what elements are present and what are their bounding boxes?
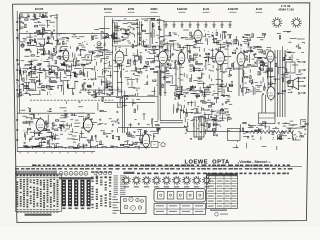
wire: [219, 126, 221, 127]
wire: [26, 74, 28, 80]
wire: [93, 45, 95, 46]
wire: [95, 90, 97, 94]
wire: [199, 87, 201, 90]
wire: [158, 37, 160, 39]
tube V7 EM84: [237, 51, 245, 68]
wire: [140, 142, 148, 144]
capacitor: [25, 49, 26, 51]
resistor: [40, 138, 43, 139]
wire: [151, 119, 153, 124]
capacitor: [39, 69, 41, 70]
capacitor: [30, 68, 32, 69]
wire: [265, 71, 267, 74]
wire: [190, 120, 193, 122]
capacitor: [44, 70, 46, 71]
value label: [281, 76, 283, 79]
wire: [244, 34, 250, 36]
resistor: [34, 26, 37, 27]
IF transformer box T2: [150, 21, 164, 47]
value label: [298, 130, 300, 133]
junction: [91, 32, 94, 35]
value label: [228, 75, 230, 78]
label Roehren: [124, 172, 135, 174]
wire: [58, 127, 61, 129]
wire: [254, 87, 256, 94]
resistor: [217, 41, 218, 44]
wire: [80, 136, 87, 138]
capacitor: [94, 91, 95, 93]
resistor: [132, 44, 133, 47]
wire: [132, 141, 134, 144]
resistor: [276, 63, 277, 66]
resistor: [162, 71, 165, 72]
wire: [201, 72, 203, 78]
resistor: [67, 85, 68, 88]
wire: [143, 40, 145, 45]
trimmer capacitor C9: [229, 22, 232, 28]
wire: [88, 89, 90, 95]
value label: [196, 93, 199, 96]
wire: [183, 105, 185, 108]
wire: [215, 98, 217, 103]
capacitor: [179, 45, 180, 47]
capacitor: [242, 37, 244, 38]
antenna terminal 4: [39, 15, 42, 17]
wire: [177, 68, 179, 71]
title Vinetta-Stereo: [238, 160, 268, 164]
wire: [61, 114, 68, 116]
wire: [218, 120, 222, 122]
wire: [37, 72, 43, 74]
wire: [64, 65, 72, 67]
wire: [110, 145, 114, 147]
wire: [201, 90, 203, 96]
value label: [34, 17, 36, 20]
bus wire: [17, 112, 95, 114]
value label: [18, 17, 21, 20]
junction: [48, 91, 51, 94]
wire: [47, 37, 49, 44]
resistor: [88, 114, 89, 117]
value label: [147, 51, 150, 54]
wire: [94, 56, 101, 58]
capacitor: [169, 56, 171, 57]
wire: [155, 121, 159, 123]
wire: [211, 109, 213, 115]
wire: [163, 44, 166, 46]
wire: [72, 128, 74, 133]
terminal 5: [298, 92, 305, 94]
tick 6: [59, 152, 61, 154]
value label: [225, 68, 227, 71]
value label: [106, 33, 109, 36]
resistor: [57, 57, 60, 58]
wire: [74, 61, 76, 67]
junction: [300, 135, 303, 138]
wire: [243, 70, 245, 77]
wire: [273, 78, 280, 80]
wire: [75, 81, 79, 83]
wire: [100, 59, 102, 62]
wire: [35, 84, 37, 91]
capacitor: [40, 32, 41, 34]
wire: [19, 13, 21, 30]
resistor: [198, 138, 201, 139]
value label: [91, 123, 95, 126]
wire: [162, 59, 169, 61]
wire: [209, 84, 215, 86]
value label: [82, 46, 86, 49]
wire: [280, 136, 282, 140]
wire: [137, 129, 142, 131]
capacitor: [84, 83, 86, 84]
resistor: [106, 85, 107, 88]
junction: [103, 44, 106, 47]
resistor: [55, 129, 58, 130]
wire: [101, 92, 106, 94]
wire: [97, 121, 99, 123]
wire: [25, 82, 27, 89]
wire: [58, 33, 65, 35]
value label: [297, 60, 300, 63]
wire: [218, 91, 221, 93]
wire: [213, 42, 220, 44]
filter box: [259, 113, 276, 124]
capacitor: [199, 36, 201, 37]
resistor: [40, 45, 43, 46]
wire: [109, 71, 111, 78]
wire: [156, 48, 159, 50]
wire: [285, 72, 290, 74]
capacitor: [261, 65, 263, 66]
capacitor: [289, 83, 291, 84]
wire: [284, 93, 286, 96]
wire: [212, 121, 214, 127]
wire: [119, 98, 121, 106]
wire: [257, 46, 262, 48]
value label: [250, 90, 252, 93]
table footer note: [25, 214, 52, 216]
junction: [107, 61, 110, 64]
wire: [221, 115, 223, 120]
capacitor: [222, 80, 223, 82]
resistor: [31, 55, 34, 56]
capacitor: [240, 45, 242, 46]
junction: [215, 29, 218, 32]
label 2 TL NL: [281, 4, 291, 8]
wire: [182, 46, 184, 49]
capacitor: [43, 141, 44, 143]
junction: [83, 40, 86, 43]
wire: [154, 133, 158, 135]
junction: [246, 33, 249, 36]
wire: [117, 82, 123, 84]
value label: [207, 99, 210, 102]
junction: [90, 39, 93, 42]
resistor: [260, 61, 263, 62]
wire: [57, 85, 63, 87]
wire: [151, 130, 158, 132]
value label: [190, 36, 194, 39]
wire: [262, 77, 264, 82]
label EABC80: [177, 7, 188, 11]
wire: [39, 90, 41, 94]
resistor: [169, 32, 170, 35]
wire: [266, 71, 268, 79]
wire: [41, 70, 49, 72]
capacitor: [220, 85, 222, 86]
wire: [211, 117, 216, 119]
wire: [209, 124, 211, 127]
wire: [153, 29, 155, 38]
wire: [256, 84, 263, 86]
wire: [99, 94, 101, 95]
wire: [143, 113, 146, 115]
wire: [112, 33, 114, 40]
wire: [202, 68, 204, 70]
wire: [115, 29, 119, 31]
wire: [100, 130, 105, 132]
wire: [170, 85, 177, 87]
capacitor: [82, 127, 83, 129]
junction: [296, 135, 299, 138]
resistor: [232, 52, 235, 53]
pinout label 9: [204, 186, 209, 187]
wire: [98, 76, 106, 78]
value label: [213, 61, 216, 64]
wire: [134, 59, 136, 66]
capacitor: [107, 136, 108, 138]
value label: [120, 97, 122, 100]
wire: [103, 70, 108, 72]
resistor: [49, 71, 50, 74]
wire: [256, 89, 260, 91]
wire: [61, 85, 63, 92]
wire: [83, 118, 85, 121]
wire: [250, 125, 257, 127]
value label: [227, 95, 230, 98]
wire: [32, 93, 40, 95]
capacitor: [63, 56, 64, 58]
wire: [272, 56, 276, 58]
resistor: [49, 136, 52, 137]
resistor: [103, 37, 106, 38]
resistor: [279, 36, 280, 39]
resistor: [201, 124, 204, 125]
value label: [145, 69, 148, 72]
wire: [260, 69, 262, 75]
wire: [283, 73, 285, 79]
switch header band: [59, 177, 92, 179]
value label: [83, 64, 85, 67]
wire: [127, 34, 129, 37]
wire: [76, 58, 78, 65]
capacitor: [223, 95, 224, 97]
value label: [156, 34, 159, 37]
junction: [81, 41, 84, 44]
rectifier B1: [207, 120, 216, 131]
junction: [97, 52, 100, 55]
wire: [193, 80, 197, 82]
tube V9 EL84b: [267, 85, 275, 102]
wire: [49, 82, 57, 84]
junction: [145, 38, 148, 41]
wire: [262, 69, 264, 71]
value label: [157, 60, 160, 63]
tick 9: [83, 152, 85, 154]
value label: [190, 57, 194, 60]
resistor: [201, 101, 204, 102]
wire: [166, 42, 168, 49]
value label: [36, 55, 39, 58]
wire: [214, 37, 218, 39]
wire: [66, 101, 68, 104]
wire: [144, 131, 148, 133]
wire: [93, 93, 96, 95]
wire: [187, 103, 189, 106]
wire: [124, 96, 126, 133]
resistor: [24, 86, 27, 87]
coil table headers: [91, 171, 112, 178]
value label: [190, 70, 192, 73]
value label: [136, 26, 139, 29]
wire: [203, 94, 210, 96]
wire: [124, 97, 126, 105]
wire: [233, 41, 237, 43]
resistor: [144, 67, 147, 68]
resistor: [195, 40, 196, 43]
value label: [226, 114, 229, 117]
wire: [289, 124, 295, 126]
resistor row R5: [69, 146, 73, 148]
junction: [110, 81, 113, 84]
capacitor: [63, 53, 64, 55]
resistor: [165, 50, 168, 51]
wire: [78, 43, 81, 45]
wire: [51, 33, 54, 35]
wire: [62, 88, 64, 95]
capacitor: [107, 93, 108, 95]
capacitor: [47, 42, 48, 44]
capacitor: [202, 109, 204, 110]
wire: [64, 70, 66, 74]
capacitor: [236, 48, 237, 50]
resistor: [48, 51, 49, 54]
value label: [203, 95, 206, 98]
wire: [135, 68, 140, 70]
value label: [32, 135, 34, 138]
wire: [125, 48, 127, 56]
resistor: [234, 40, 237, 41]
wire: [193, 37, 201, 39]
trimmer capacitor C7: [213, 22, 216, 28]
value label: [33, 19, 35, 22]
junction: [304, 121, 307, 124]
value label: [53, 21, 55, 24]
wire: [252, 79, 254, 83]
wire: [41, 30, 43, 37]
value label: [208, 35, 211, 38]
wire: [94, 28, 99, 30]
wire: [29, 33, 31, 39]
capacitor: [136, 23, 138, 24]
resistor: [82, 65, 85, 66]
wire: [183, 125, 185, 127]
wire: [113, 59, 120, 61]
wire: [122, 52, 124, 57]
wire: [77, 59, 80, 61]
resistor: [258, 72, 259, 75]
wire: [195, 94, 199, 96]
capacitor: [289, 57, 290, 59]
wire: [81, 84, 83, 87]
junction: [139, 68, 142, 71]
wire: [50, 93, 52, 96]
tube V8 EL84: [267, 49, 274, 64]
wire: [164, 64, 166, 96]
wire: [152, 25, 155, 27]
wire: [282, 123, 290, 125]
wire: [123, 105, 127, 107]
wire: [277, 33, 281, 35]
value label: [131, 134, 134, 137]
wire: [78, 116, 84, 118]
wire: [281, 46, 283, 50]
wire: [239, 59, 243, 61]
value label: [83, 49, 86, 52]
tube V2 ECH81: [115, 49, 124, 66]
resistor: [42, 86, 45, 87]
resistor: [151, 18, 154, 19]
tube V10 ECC83: [36, 117, 45, 133]
wire: [233, 68, 235, 70]
resistor: [157, 128, 158, 131]
junction: [129, 59, 132, 62]
wire: [212, 119, 218, 121]
value label: [47, 24, 50, 27]
value label: [116, 37, 118, 40]
value label: [37, 21, 41, 24]
junction: [224, 84, 227, 87]
wire: [160, 120, 183, 122]
wire: [247, 43, 249, 49]
wire: [43, 39, 45, 44]
resistor: [193, 68, 194, 71]
resistor: [112, 135, 113, 138]
capacitor: [100, 119, 101, 121]
value label: [49, 21, 53, 24]
value label: [288, 41, 291, 44]
resistor: [42, 138, 45, 139]
wire: [133, 87, 140, 89]
resistor: [154, 50, 155, 53]
value label: [211, 34, 214, 37]
wire: [292, 138, 294, 140]
wire: [301, 119, 306, 121]
resistor: [157, 55, 160, 56]
wire: [137, 71, 140, 73]
wire: [79, 135, 81, 141]
pinout label 4: [154, 186, 159, 187]
wire: [123, 37, 128, 39]
wire: [106, 83, 112, 85]
resistor: [219, 63, 222, 64]
wire: [54, 17, 58, 19]
resistor: [196, 95, 199, 96]
value label: [171, 60, 173, 63]
wire: [51, 135, 53, 141]
wire: [142, 41, 146, 43]
